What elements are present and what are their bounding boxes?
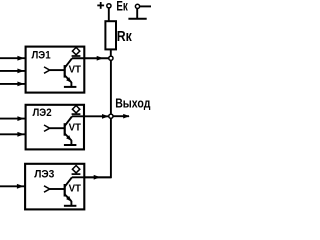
collector wire [65,58,72,67]
base bar [64,123,66,136]
base input chevron [44,125,50,131]
svg-text:VT: VT [69,123,82,134]
ground bar of emitter [64,205,77,207]
open collector diamond [72,47,79,54]
emitter wire with arrow [65,194,72,201]
ground bar of emitter [64,86,77,88]
plus sign of supply Ек [97,2,104,9]
input wire 2 of ЛЭ1 [0,70,26,72]
collector wire [65,117,72,126]
node junction 2 [109,114,113,118]
base wire [50,188,65,190]
base bar [64,184,66,197]
base input chevron [44,186,50,192]
output wire of ЛЭ2 with arrow to node2 [72,115,111,117]
collector wire [65,177,72,186]
logic element ЛЭ1 box [26,47,85,93]
svg-text:Rк: Rк [117,29,133,45]
transistor VT of ЛЭ3 [44,166,82,206]
base input chevron [44,67,50,73]
wire from negative terminal to right edge [139,5,151,7]
emitter wire with arrow [65,75,72,82]
bus wire node2 to corner and left to ЛЭ3 output [84,116,111,177]
wire supply terminal to resistor [108,7,110,22]
svg-text:ЛЭ3: ЛЭ3 [34,169,54,181]
output wire of ЛЭ1 with arrow to node1 [72,57,111,59]
svg-text:ЛЭ2: ЛЭ2 [33,107,52,119]
svg-text:VT: VT [69,184,82,195]
emitter wire to ground [70,140,72,144]
common ground bar [128,18,146,20]
bus wire node1 to node2 [110,58,112,116]
input wire 1 of ЛЭ1 [0,57,26,59]
node junction 1 [109,56,113,60]
transistor VT of ЛЭ2 [44,106,82,146]
emitter wire to ground [70,82,72,86]
output wire of ЛЭ3 with arrow [72,176,111,178]
emitter wire to ground [70,201,72,205]
input wire 1 of ЛЭ2 [0,118,26,120]
open collector bar [72,113,81,115]
output wire with arrow to node Выход [113,115,129,117]
svg-text:ЛЭ1: ЛЭ1 [32,49,51,61]
input wire of ЛЭ3 [0,185,25,187]
svg-text:VT: VT [69,65,82,76]
resistor Rк [105,21,116,49]
emitter wire with arrow [65,134,72,141]
open collector bar [72,55,81,57]
ground bar of emitter [64,144,77,146]
svg-text:Ек: Ек [116,0,128,14]
svg-text:Выход: Выход [115,96,150,110]
transistor VT of ЛЭ1 [44,47,82,87]
wire negative terminal down [136,8,138,18]
logic element ЛЭ2 box [26,105,84,150]
input wire 3 of ЛЭ1 [0,83,26,85]
open collector diamond [72,166,79,173]
open collector bar [72,173,81,175]
logic element ЛЭ3 box [25,164,84,210]
terminal circle negative [135,4,139,8]
base bar [64,65,66,78]
base wire [50,69,65,71]
terminal circle positive [107,4,111,8]
base wire [50,127,65,129]
wire resistor to node [110,49,112,58]
open collector diamond [72,106,79,113]
input wire 2 of ЛЭ2 [0,133,26,135]
